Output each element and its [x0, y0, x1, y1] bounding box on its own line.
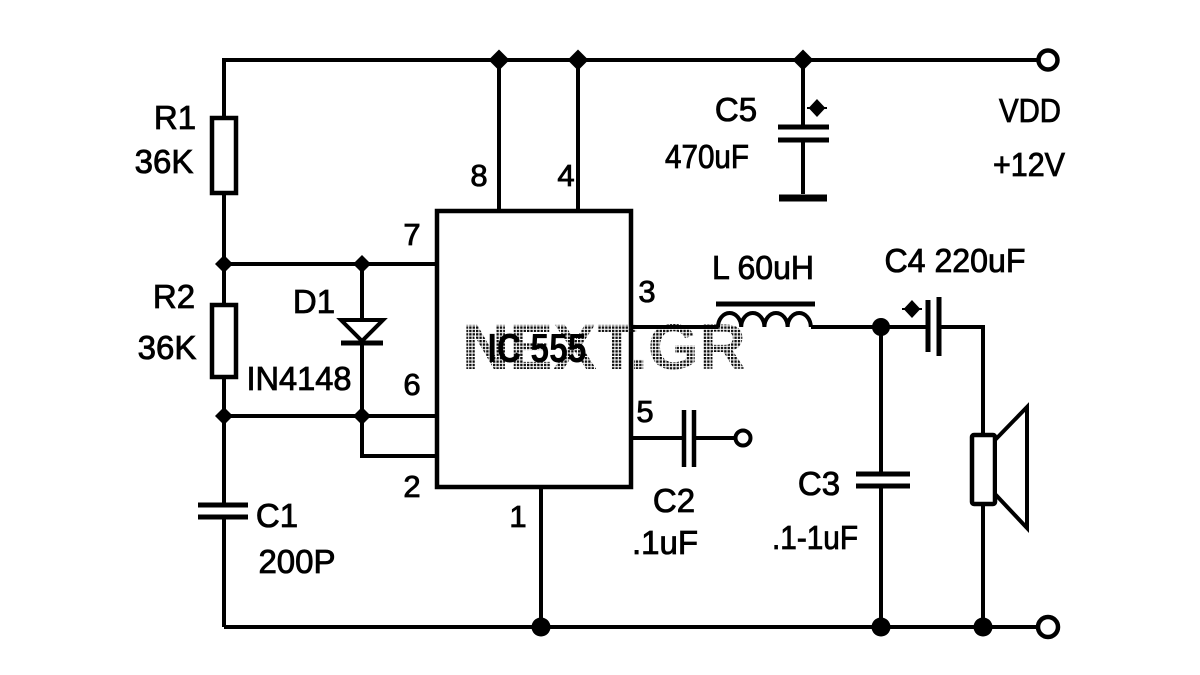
capacitor C3	[856, 474, 910, 486]
wire C2 to terminal	[696, 436, 735, 440]
diode D1	[341, 264, 383, 416]
svg-text:1: 1	[509, 499, 526, 534]
wire C3 top lead	[879, 327, 883, 472]
junction C3 ground	[872, 618, 891, 637]
wire ground rail bottom	[224, 625, 1037, 629]
wire pin 5	[631, 436, 682, 440]
C5 polarity plus	[807, 101, 827, 116]
svg-text:C1: C1	[256, 497, 298, 534]
junction C5 top rail	[793, 50, 814, 71]
svg-text:+12V: +12V	[993, 146, 1065, 183]
wire L to C4	[811, 325, 928, 329]
wire speaker to ground rail	[981, 506, 985, 627]
svg-text:R2: R2	[153, 278, 195, 315]
junction pin 1 ground	[532, 618, 551, 637]
terminal ground	[1038, 617, 1058, 637]
junction pin 8 top rail	[489, 50, 510, 71]
wire C3 bottom lead	[879, 488, 883, 627]
junction D1 cathode	[353, 407, 371, 425]
svg-text:5: 5	[636, 394, 653, 429]
wire pin 6	[224, 414, 437, 418]
inductor L top bar	[716, 302, 815, 307]
svg-text:36K: 36K	[135, 143, 194, 180]
svg-text:IN4148: IN4148	[247, 360, 352, 397]
svg-text:2: 2	[403, 469, 420, 504]
junction node pin3 / C3 / C4	[872, 318, 890, 336]
svg-text:C3: C3	[798, 465, 840, 502]
C4 polarity plus	[902, 302, 922, 317]
wire pin 7	[224, 262, 437, 266]
svg-text:D1: D1	[293, 283, 335, 320]
capacitor C5 plates	[778, 127, 829, 140]
svg-text:.1uF: .1uF	[632, 524, 698, 561]
svg-text:VDD: VDD	[999, 92, 1061, 129]
wire pin 8	[497, 60, 501, 211]
wire pin 2 step	[362, 416, 437, 456]
resistor R1	[212, 118, 236, 193]
wire R2 to C1	[222, 377, 226, 505]
wire pin 4	[576, 60, 580, 211]
svg-text:L 60uH: L 60uH	[712, 249, 814, 286]
svg-text:R1: R1	[154, 99, 196, 136]
speaker LS1	[972, 407, 1027, 528]
svg-text:200P: 200P	[258, 543, 335, 580]
svg-text:IC 555: IC 555	[488, 325, 587, 371]
svg-text:4: 4	[557, 158, 574, 193]
wire VDD rail top	[224, 60, 1037, 120]
svg-text:8: 8	[470, 158, 487, 193]
svg-text:7: 7	[403, 217, 420, 252]
svg-text:470uF: 470uF	[665, 138, 749, 175]
capacitor C1	[198, 505, 248, 517]
svg-text:36K: 36K	[138, 329, 197, 366]
svg-text:C4 220uF: C4 220uF	[885, 242, 1026, 279]
C5 bottom bar	[779, 195, 827, 202]
wire C4 to speaker	[941, 327, 983, 433]
terminal VDD	[1039, 51, 1058, 70]
wire C1 to ground rail	[222, 519, 226, 627]
wire R1 to R2	[222, 193, 226, 305]
junction speaker ground	[974, 618, 993, 637]
capacitor C4	[928, 297, 939, 356]
svg-text:3: 3	[638, 274, 655, 309]
junction left rail / pin7	[215, 255, 233, 273]
wire pin 3	[631, 325, 718, 329]
junction pin 4 top rail	[568, 50, 589, 71]
junction left rail / pin6	[215, 407, 233, 425]
wire pin 1	[539, 487, 543, 627]
resistor R2	[212, 305, 236, 377]
svg-text:C5: C5	[715, 91, 757, 128]
op-amp U1 IC 555 body	[437, 211, 631, 487]
inductor L coil	[718, 313, 811, 327]
svg-text:.1-1uF: .1-1uF	[772, 519, 858, 556]
terminal C2 output	[736, 431, 751, 446]
svg-text:C2: C2	[653, 482, 695, 519]
wire C5 bottom lead	[801, 142, 805, 194]
capacitor C2	[684, 410, 694, 467]
junction D1 anode	[353, 255, 371, 273]
wire C5 top lead	[801, 60, 805, 125]
svg-text:6: 6	[403, 367, 420, 402]
